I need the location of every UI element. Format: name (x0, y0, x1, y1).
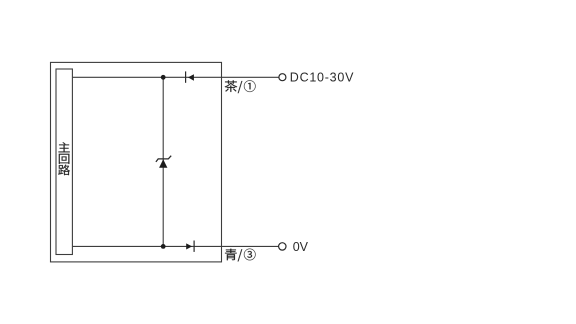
svg-text:0V: 0V (293, 240, 309, 254)
svg-text:DC10-30V: DC10-30V (290, 71, 354, 85)
